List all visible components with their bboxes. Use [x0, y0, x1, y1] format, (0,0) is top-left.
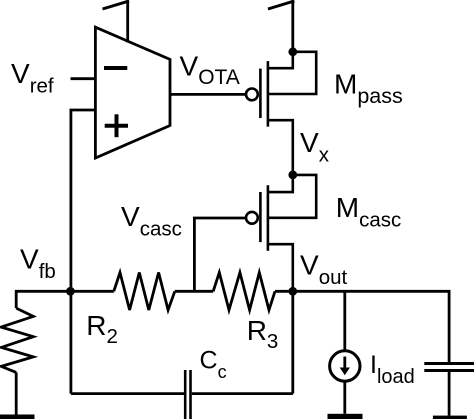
capacitor Cc — [185, 370, 190, 419]
node dot: M_casc source (Vx) — [288, 171, 297, 180]
node dot: Vfb — [66, 287, 75, 296]
wire: Vfb node left to feedback resistor — [16, 291, 70, 308]
svg-text:Mpass: Mpass — [334, 68, 403, 108]
svg-text:Mcasc: Mcasc — [336, 192, 401, 232]
svg-text:R3: R3 — [247, 315, 279, 353]
Iload arrow — [343, 357, 346, 369]
resistor R1 (feedback divider, unlabeled) — [1, 308, 33, 372]
supply VDD slash (op-amp) — [103, 1, 130, 9]
svg-text:Iload: Iload — [370, 351, 415, 388]
wire: C_load to ground — [448, 372, 451, 416]
wire: Vout node down to bottom feedback wire — [291, 291, 294, 393]
svg-text:Vout: Vout — [300, 250, 347, 290]
wire: Iload branch down — [343, 291, 346, 350]
ground (R1) — [0, 415, 35, 419]
wire: VDD to op-amp top — [126, 0, 129, 43]
svg-text:Vfb: Vfb — [20, 244, 56, 284]
ground (C_load) — [433, 416, 467, 419]
wire: Iload to ground — [343, 381, 346, 414]
transistor M_casc — [246, 175, 316, 291]
svg-text:Vcasc: Vcasc — [121, 201, 182, 241]
capacitor C_load (output) — [424, 364, 474, 371]
wire: Vfb node to R2 — [70, 290, 113, 293]
resistor R2 — [114, 273, 175, 311]
node dot: M_pass source — [288, 47, 297, 56]
op-amp U1 minus input symbol — [104, 66, 127, 70]
wire: R3 to Vout node — [275, 290, 293, 293]
op-amp U1 — [95, 27, 170, 158]
supply VDD slash (M_pass) — [268, 1, 294, 9]
wire: Vout node right to output branch — [293, 291, 449, 362]
wire: op-amp plus input down to Vfb node — [71, 110, 96, 394]
wire: Cc right plate to Vout vertical — [192, 392, 293, 395]
node dot: Vout — [288, 287, 297, 296]
wire: Vcasc to M_casc gate and down to R2/R3 junction — [194, 218, 246, 293]
wire: R2 to R3 (Vcasc junction) — [175, 290, 213, 293]
svg-text:Cc: Cc — [200, 346, 227, 382]
ground (Iload) — [328, 414, 363, 419]
wire: VDD to M_pass source node — [291, 0, 294, 52]
wire: op-amp output to M_pass gate — [170, 93, 246, 96]
svg-text:Vx: Vx — [300, 127, 330, 167]
op-amp U1 plus input symbol — [105, 114, 128, 137]
current source Iload — [330, 351, 360, 381]
wire: R1 to ground — [15, 372, 18, 414]
svg-text:Vref: Vref — [11, 58, 54, 98]
resistor R3 — [213, 273, 275, 311]
wire: bottom loop Vfb to Cc left plate — [71, 392, 184, 395]
svg-text:VOTA: VOTA — [180, 50, 240, 89]
wire: Vref to op-amp minus input — [71, 77, 96, 80]
transistor M_pass — [246, 52, 316, 175]
svg-text:R2: R2 — [86, 310, 118, 348]
